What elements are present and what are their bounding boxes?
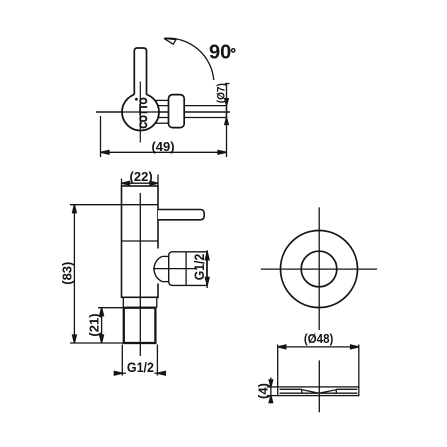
svg-text:G1/2: G1/2 (191, 254, 207, 281)
svg-text:COTTO: COTTO (138, 97, 150, 128)
svg-text:(49): (49) (151, 139, 174, 154)
svg-text:(Ø7): (Ø7) (215, 83, 227, 103)
svg-text:90: 90 (209, 42, 231, 64)
svg-text:(21): (21) (87, 313, 102, 336)
svg-text:(83): (83) (59, 262, 74, 285)
svg-text:(4): (4) (255, 383, 270, 399)
svg-text:(22): (22) (130, 169, 153, 184)
svg-text:G1/2: G1/2 (127, 359, 154, 375)
svg-text:(Ø48): (Ø48) (304, 332, 334, 346)
